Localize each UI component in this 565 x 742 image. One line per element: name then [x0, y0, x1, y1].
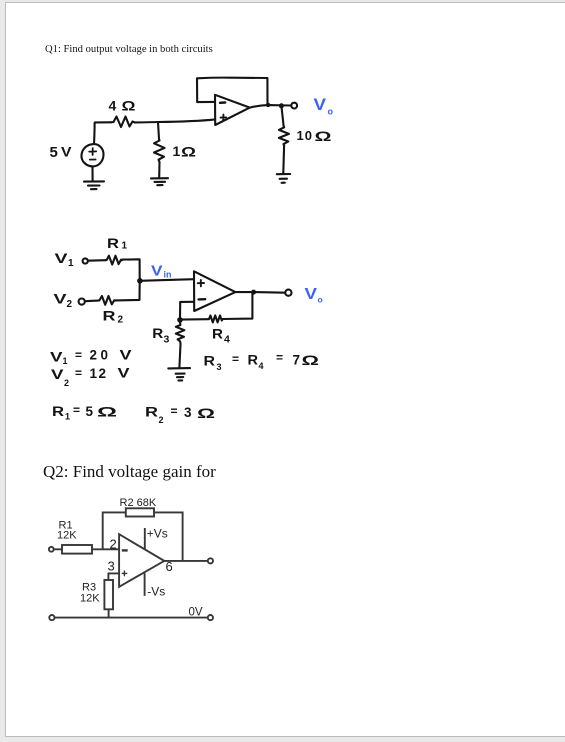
wire (U2 output to terminal) [235, 291, 285, 294]
wire (R1 to summing node) [122, 259, 140, 280]
ground (below 5V source) [84, 181, 104, 189]
svg-text:R: R [52, 404, 64, 419]
svg-text:12K: 12K [57, 530, 77, 542]
label Vo circuit2 [305, 286, 323, 305]
wire (R3 to ground) [179, 344, 180, 367]
ground (below 10ohm) [277, 174, 290, 183]
pin 3 [108, 559, 115, 574]
terminal (0V rail right) [208, 615, 213, 620]
ground (below 1ohm) [151, 178, 168, 185]
wire (R1 to U3 inverting input) [92, 548, 119, 550]
wire (feedback top right) [154, 512, 183, 561]
svg-text:R: R [152, 325, 163, 341]
terminal (output) [208, 558, 213, 563]
svg-text:4: 4 [224, 334, 230, 346]
svg-text:R: R [248, 353, 259, 368]
resistor R2 [98, 296, 115, 305]
node (output junction) [251, 290, 256, 295]
svg-text:V: V [118, 366, 130, 381]
svg-text:R: R [145, 405, 158, 420]
label Vo circuit1 [314, 95, 334, 117]
svg-text:3: 3 [184, 405, 192, 420]
svg-text:2: 2 [118, 315, 124, 326]
svg-text:3: 3 [164, 334, 170, 346]
svg-text:=: = [75, 366, 82, 380]
svg-text:7: 7 [293, 353, 301, 368]
wire (node down to 1ohm) [158, 122, 159, 139]
svg-text:+Vs: +Vs [147, 527, 168, 541]
wire (U3 non-inverting input to R3) [108, 573, 119, 580]
resistor R1 [106, 256, 122, 265]
wire (V1 to R1) [88, 259, 106, 262]
resistor 1ohm [154, 139, 165, 162]
node (10ohm tap) [279, 103, 284, 108]
label V2 = 12 V [51, 366, 130, 389]
resistor R3 [176, 322, 185, 344]
svg-text:2: 2 [64, 378, 69, 388]
svg-text:V: V [55, 250, 69, 266]
label 1ohm [173, 143, 197, 160]
op-amp U3 [119, 534, 164, 587]
svg-text:Ω: Ω [315, 128, 332, 144]
label R2 68K [120, 497, 157, 509]
op-amp U2 [194, 271, 235, 311]
svg-text:3: 3 [217, 362, 222, 372]
wire 0V rail [55, 617, 208, 619]
svg-text:5: 5 [86, 404, 94, 419]
svg-text:Ω: Ω [97, 405, 117, 420]
svg-text:in: in [164, 270, 172, 280]
resistor R4 [208, 316, 223, 323]
wire (U2 - input to feedback junction) [180, 302, 194, 318]
wire (junction to R4) [180, 318, 208, 320]
resistor R1 (Q2) [62, 545, 92, 554]
svg-text:1: 1 [65, 412, 70, 422]
wire (R3 to 0V rail) [108, 610, 110, 618]
terminal (0V rail left) [49, 615, 54, 620]
terminal Vo circuit1 [291, 103, 297, 109]
pin 2 [110, 537, 117, 552]
wire (terminal to R1) [54, 548, 62, 550]
terminal Vo circuit2 [285, 290, 291, 296]
svg-text:o: o [328, 107, 334, 117]
svg-text:R: R [107, 235, 119, 251]
svg-text:10: 10 [297, 128, 313, 143]
node Vin [137, 278, 143, 284]
svg-text:V: V [151, 263, 163, 280]
label 4ohm [109, 98, 136, 114]
wire -Vs [144, 573, 146, 596]
wire +Vs [144, 528, 146, 549]
resistor 10ohm [279, 126, 289, 146]
svg-text:2: 2 [110, 537, 117, 552]
svg-text:1: 1 [122, 241, 128, 252]
label R3 = R4 = 7ohm [204, 351, 320, 373]
svg-text:V: V [120, 348, 132, 363]
svg-text:12: 12 [90, 366, 108, 381]
svg-text:4: 4 [259, 361, 264, 371]
pin 6 [166, 559, 173, 574]
node (feedback junction) [266, 103, 270, 107]
node (feedback junction) [177, 317, 183, 323]
svg-text:4: 4 [109, 98, 117, 114]
label R1 = 5ohm [52, 403, 117, 422]
svg-text:1: 1 [173, 143, 181, 159]
resistor 4ohm [111, 117, 135, 128]
wire (feedback loop U1 output to - input) [197, 78, 268, 105]
label R3 [152, 325, 169, 346]
wire (R 4ohm to op-amp + input, node at 1ohm tap) [135, 119, 216, 122]
label R2 = 3ohm [145, 404, 215, 425]
svg-text:V: V [61, 144, 72, 160]
wire (U1 output to terminal) [250, 105, 291, 108]
label R1 [107, 235, 128, 252]
label 10ohm [297, 128, 332, 144]
terminal V1 [83, 258, 88, 263]
svg-text:3: 3 [108, 559, 115, 574]
svg-text:=: = [171, 404, 178, 418]
label R2 [103, 308, 124, 326]
wire (source to R 4ohm) [95, 122, 111, 123]
svg-text:=: = [276, 351, 283, 365]
wire (node to 10ohm) [281, 106, 283, 126]
terminal (input, left of R1) [49, 547, 54, 552]
svg-text:=: = [75, 348, 82, 362]
label V1 = 20 V [50, 348, 132, 367]
svg-text:=: = [73, 403, 80, 417]
svg-text:1: 1 [63, 356, 68, 366]
svg-text:V: V [305, 286, 318, 303]
wire (R4 to U2 output) [223, 292, 253, 319]
wire (V2 to R2) [85, 300, 98, 303]
svg-text:1: 1 [68, 258, 74, 269]
label +Vs [147, 527, 168, 541]
wire (feedback top left) [103, 512, 126, 549]
svg-text:V: V [50, 350, 63, 365]
svg-text:R2 68K: R2 68K [120, 497, 157, 509]
label 5V [50, 144, 73, 162]
svg-text:=: = [232, 352, 239, 366]
label R4 [212, 326, 230, 346]
svg-text:R: R [212, 326, 223, 342]
label V1 [55, 250, 75, 269]
svg-text:0V: 0V [189, 607, 203, 619]
label -Vs [147, 585, 165, 599]
wire (U3 output) [164, 560, 208, 562]
label V2 [54, 291, 73, 311]
svg-text:R: R [103, 308, 116, 324]
svg-text:Ω: Ω [197, 406, 215, 421]
svg-text:12K: 12K [80, 593, 100, 605]
voltage source 5V [81, 124, 103, 182]
svg-text:V: V [54, 291, 68, 307]
wire (10ohm to ground) [282, 146, 285, 174]
op-amp U1 [215, 95, 250, 125]
wire (R2 up to summing node) [116, 281, 140, 301]
svg-text:R: R [204, 354, 216, 369]
svg-text:V: V [314, 95, 327, 114]
svg-text:Ω: Ω [181, 144, 196, 160]
label 0V [189, 607, 203, 619]
svg-text:-Vs: -Vs [147, 585, 165, 599]
svg-text:20: 20 [90, 348, 112, 363]
resistor R3 (Q2) [104, 580, 113, 609]
svg-text:6: 6 [166, 559, 173, 574]
resistor R2 (Q2) [126, 508, 154, 516]
terminal V2 [79, 299, 85, 305]
label R1 12K [57, 520, 77, 542]
svg-text:Ω: Ω [302, 353, 320, 368]
label R3 12K [80, 582, 100, 605]
svg-text:2: 2 [67, 299, 73, 310]
svg-text:V: V [51, 367, 64, 382]
svg-text:Ω: Ω [122, 98, 136, 114]
svg-text:o: o [318, 295, 323, 305]
ground (below R3) [168, 368, 190, 380]
svg-text:2: 2 [159, 415, 164, 425]
wire (1ohm to ground) [158, 162, 160, 177]
wire (summing node to U2 + input) [140, 279, 194, 281]
svg-text:5: 5 [50, 144, 58, 161]
label Vin [151, 263, 172, 280]
